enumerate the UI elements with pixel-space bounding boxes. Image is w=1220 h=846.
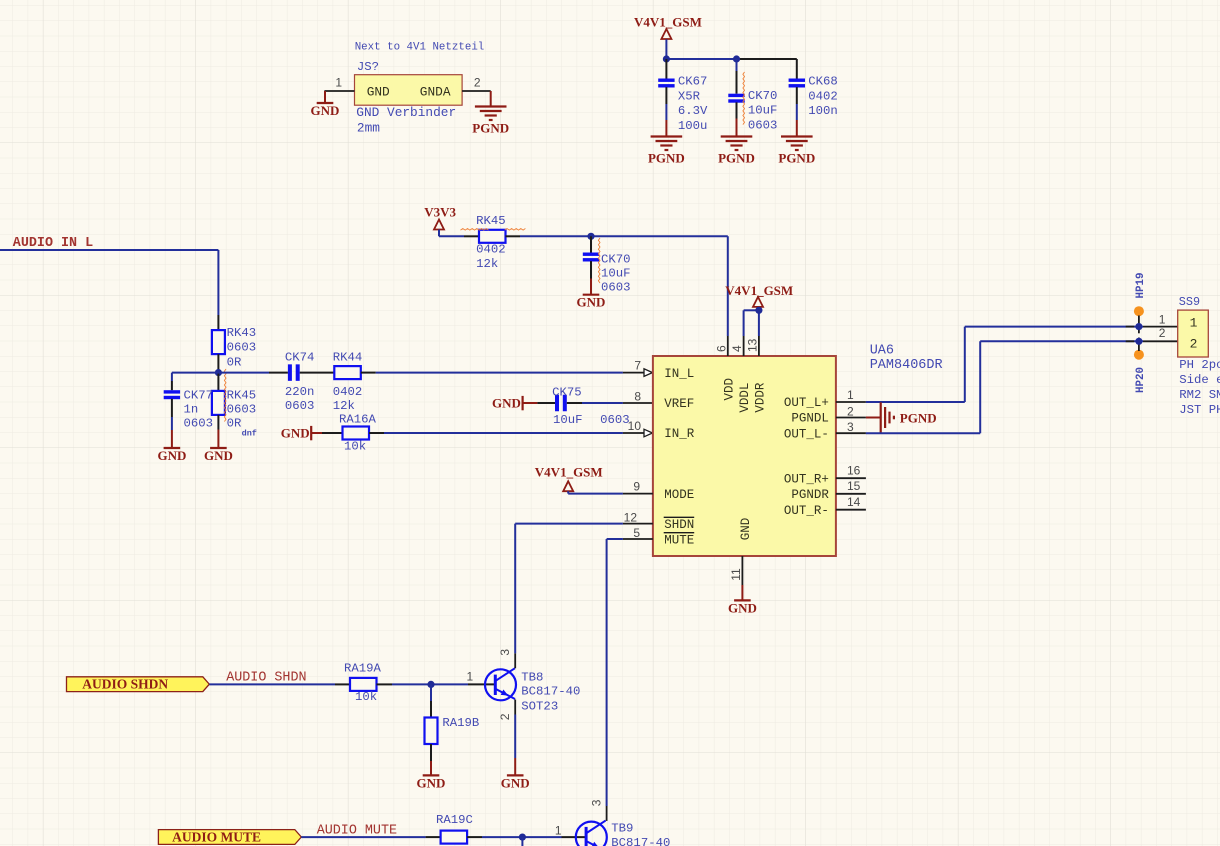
svg-text:0603: 0603: [600, 413, 630, 427]
power symbol V4V1_GSM mid: [753, 297, 763, 307]
connector JS? pin 1 line: [324, 90, 354, 92]
junction VDDR tee: [755, 307, 762, 314]
wire OUT_L+ net: [866, 401, 965, 403]
capacitor CK68 plates: [789, 79, 805, 88]
svg-text:GND: GND: [157, 448, 186, 463]
ground GND stem TB8: [514, 758, 516, 775]
svg-text:VDD: VDD: [722, 378, 736, 401]
ground GND below RA19B: [417, 775, 446, 790]
wire MUTE net: [607, 538, 623, 540]
svg-text:V4V1_GSM: V4V1_GSM: [725, 283, 793, 298]
DRC squiggles at RK45: [461, 229, 489, 231]
svg-text:RK43: RK43: [227, 326, 257, 340]
transistor TB8 collector pin: [514, 653, 516, 668]
svg-text:1: 1: [1159, 312, 1166, 326]
svg-text:IN_R: IN_R: [664, 427, 695, 441]
capacitor CK77 plates: [164, 390, 180, 399]
junction rail at CK70: [733, 55, 740, 62]
svg-text:1: 1: [555, 823, 562, 837]
wire CK67 to PGND: [665, 104, 667, 120]
pin 13 VDDR line: [758, 336, 760, 356]
svg-text:VDDL: VDDL: [738, 383, 752, 413]
DRC squiggle at RK45 dnf: [224, 369, 226, 422]
ground GND stem pin 11: [741, 585, 743, 600]
transistor TB9 BC817-40: [576, 821, 607, 846]
svg-text:TB9: TB9: [611, 822, 633, 836]
wire V3V3 to RK45: [439, 235, 464, 237]
capacitor CK68 top pin: [796, 59, 798, 79]
svg-text:2: 2: [847, 404, 854, 418]
wire AUDIO IN L vertical: [217, 250, 219, 315]
capacitor CK70 plates: [728, 94, 744, 103]
ground PGND below CK68: [778, 137, 815, 166]
pin 6 VDD line: [727, 336, 729, 356]
svg-text:0603: 0603: [748, 118, 778, 132]
connector JS? pin 2 line: [462, 90, 491, 92]
wire VDDL VDDR tee: [744, 309, 759, 311]
svg-text:IN_L: IN_L: [664, 367, 694, 381]
svg-text:PGND: PGND: [648, 151, 685, 166]
svg-text:RA19C: RA19C: [436, 813, 473, 827]
capacitor CK75 left pin: [537, 402, 555, 404]
svg-text:AUDIO IN L: AUDIO IN L: [13, 236, 93, 251]
connector SS9 body: [1178, 310, 1209, 357]
svg-text:1: 1: [467, 670, 474, 684]
svg-text:0R: 0R: [227, 355, 242, 369]
svg-text:AUDIO SHDN: AUDIO SHDN: [226, 671, 306, 686]
svg-text:CK70: CK70: [601, 252, 631, 266]
capacitor CK70 top pin: [736, 59, 738, 71]
svg-text:9: 9: [633, 480, 640, 494]
wire V4V1_GSM stem: [665, 39, 667, 59]
wire SHDN net: [515, 523, 623, 525]
svg-text:GND: GND: [417, 775, 446, 790]
capacitor CK77 top pin: [171, 381, 173, 390]
capacitor CK74 plates: [288, 364, 300, 381]
wire below TB9 base node: [521, 837, 523, 846]
resistor RA19A body: [350, 678, 377, 691]
wire CK68 to PGND: [796, 104, 798, 120]
svg-text:0603: 0603: [227, 402, 257, 416]
svg-text:0603: 0603: [285, 399, 315, 413]
resistor RA19C left pin: [426, 836, 441, 838]
svg-text:AUDIO SHDN: AUDIO SHDN: [82, 677, 168, 692]
ground GND at JS? pin 1: [311, 91, 340, 118]
svg-text:3: 3: [589, 799, 603, 806]
svg-text:GND: GND: [577, 295, 606, 310]
DRC squiggle at CK70 decoupling: [598, 238, 600, 283]
svg-text:2: 2: [474, 76, 481, 90]
ground GND rotated at CK75: [492, 395, 537, 410]
svg-text:0603: 0603: [601, 281, 631, 295]
svg-text:GND Verbinder: GND Verbinder: [356, 105, 456, 120]
svg-text:PGND: PGND: [900, 411, 937, 426]
junction rail at CK67: [663, 55, 670, 62]
pin 16 OUT_R+ line: [836, 477, 866, 479]
svg-text:RK44: RK44: [333, 351, 363, 365]
connector SS9 pin 1 line: [1143, 326, 1178, 328]
svg-text:CK68: CK68: [808, 75, 838, 89]
capacitor CK77 bottom pin: [171, 399, 173, 417]
capacitor CK74 right pin: [300, 372, 335, 374]
svg-text:GND: GND: [739, 518, 753, 541]
svg-text:V3V3: V3V3: [424, 205, 456, 220]
svg-text:2mm: 2mm: [357, 121, 380, 136]
transistor TB8 base pin: [468, 683, 495, 685]
svg-text:RA16A: RA16A: [339, 412, 377, 426]
power symbol V4V1_GSM top: [661, 29, 671, 39]
connector SS9 pin 2 line: [1143, 340, 1178, 342]
svg-text:VREF: VREF: [664, 397, 694, 411]
wire RA16A to IN_R: [384, 432, 623, 434]
svg-text:GND: GND: [204, 448, 233, 463]
testpoint HP19 pin: [1138, 316, 1140, 334]
resistor RK45 right pin: [506, 235, 521, 237]
svg-text:JS?: JS?: [357, 60, 379, 74]
pin 2 PGNDL line: [836, 417, 866, 419]
pin 14 OUT_R- line: [836, 509, 866, 511]
svg-text:7: 7: [634, 359, 641, 373]
connector JS? body: [355, 75, 463, 106]
svg-text:3: 3: [498, 649, 512, 656]
svg-text:10: 10: [628, 419, 642, 433]
wire RA19C to TB9 base: [482, 836, 562, 838]
svg-text:12k: 12k: [333, 399, 355, 413]
svg-text:dnf: dnf: [242, 429, 257, 439]
IC UA6 PAM8406DR body: [653, 356, 836, 556]
junction HP19 on OUT_L+: [1135, 323, 1142, 330]
junction base node TB8: [427, 681, 434, 688]
pin 12 SHDN line: [623, 523, 653, 525]
resistor RA19C right pin: [467, 836, 482, 838]
wire RA19A to TB8 base: [392, 683, 468, 685]
wire V4V1_GSM stem to junction: [757, 307, 759, 310]
svg-text:14: 14: [847, 495, 861, 509]
resistor RK45 left pin: [464, 235, 479, 237]
svg-text:0R: 0R: [227, 416, 242, 430]
svg-text:BC817-40: BC817-40: [521, 685, 580, 699]
svg-text:10k: 10k: [355, 690, 377, 704]
resistor RK45 dnf top pin: [217, 373, 219, 391]
svg-text:Side e: Side e: [1179, 373, 1220, 387]
wire rail CK70-CK68: [737, 58, 797, 60]
capacitor CK75 right pin: [567, 402, 582, 404]
capacitor CK70 decoupling top pin: [590, 236, 592, 252]
junction input node: [215, 369, 222, 376]
svg-text:10k: 10k: [344, 440, 366, 454]
svg-text:1n: 1n: [184, 402, 199, 416]
svg-text:SOT23: SOT23: [521, 700, 558, 714]
wire CK77 to GND: [171, 417, 173, 430]
svg-text:CK67: CK67: [678, 75, 708, 89]
capacitor CK67 top pin: [665, 59, 667, 79]
svg-text:0402: 0402: [333, 385, 363, 399]
svg-text:GND: GND: [367, 84, 390, 99]
resistor RK44 right pin: [361, 372, 376, 374]
pin 10 IN_R line: [623, 432, 653, 434]
wire CK75 to VREF: [582, 402, 623, 404]
transistor TB9 base pin: [562, 836, 587, 838]
svg-text:V4V1_GSM: V4V1_GSM: [535, 465, 603, 480]
svg-text:CK70: CK70: [748, 89, 778, 103]
svg-text:0402: 0402: [476, 242, 506, 256]
resistor RA19A right pin: [377, 683, 393, 685]
ground PGND stem at JS? pin 2: [490, 91, 492, 107]
svg-text:1: 1: [1190, 316, 1198, 331]
svg-text:GND: GND: [281, 425, 310, 440]
ground GND rotated at RA16A: [281, 425, 322, 440]
svg-text:220n: 220n: [285, 385, 315, 399]
svg-text:6.3V: 6.3V: [678, 104, 708, 118]
testpoint HP20 pin: [1138, 338, 1140, 352]
svg-text:100n: 100n: [808, 104, 838, 118]
svg-text:PH 2po: PH 2po: [1179, 358, 1220, 372]
svg-text:0603: 0603: [184, 416, 214, 430]
resistor RA19B bottom pin: [430, 744, 432, 761]
svg-text:CK74: CK74: [285, 351, 315, 365]
svg-text:PGNDR: PGNDR: [791, 488, 829, 502]
svg-text:HP19: HP19: [1135, 273, 1147, 299]
svg-text:1: 1: [847, 388, 854, 402]
svg-text:GND: GND: [311, 103, 340, 118]
svg-text:OUT_L+: OUT_L+: [784, 396, 829, 410]
ground GND stem CK77: [171, 430, 173, 448]
pin 15 PGNDR line: [836, 493, 866, 495]
svg-text:SHDN: SHDN: [664, 518, 694, 532]
ground GND below TB8: [501, 775, 530, 790]
pin 5 MUTE line: [623, 538, 653, 540]
svg-text:16: 16: [847, 464, 861, 478]
ground GND stem RA19B: [430, 761, 432, 775]
resistor RA16A left pin: [322, 432, 343, 434]
capacitor CK67 bottom pin: [665, 87, 667, 104]
svg-text:MODE: MODE: [664, 488, 694, 502]
svg-text:RA19B: RA19B: [442, 716, 479, 730]
svg-text:5: 5: [633, 526, 640, 540]
svg-text:GND: GND: [492, 395, 521, 410]
ground PGND at JS? pin 2: [472, 107, 509, 136]
testpoint HP20 pad: [1134, 350, 1144, 360]
svg-text:100u: 100u: [678, 119, 708, 133]
wire V4V1_GSM rail CK67-CK70: [666, 58, 736, 60]
svg-text:2: 2: [1190, 337, 1198, 352]
wire PGNDL to PGND symbol: [866, 417, 881, 419]
svg-text:PGND: PGND: [472, 121, 509, 136]
capacitor CK70 decoupling bottom pin: [590, 261, 592, 278]
svg-text:MUTE: MUTE: [664, 533, 694, 547]
resistor RK45 dnf body: [212, 391, 225, 415]
power symbol V4V1_GSM mode: [563, 481, 573, 491]
capacitor CK70 bottom pin: [736, 102, 738, 118]
svg-text:13: 13: [745, 338, 759, 352]
resistor RK43 top pin: [217, 315, 219, 330]
svg-text:RA19A: RA19A: [344, 662, 382, 676]
svg-text:8: 8: [634, 389, 641, 403]
svg-text:10uF: 10uF: [748, 104, 778, 118]
transistor TB9 collector pin: [606, 806, 608, 821]
ground GND below CK77: [157, 448, 186, 463]
wire RK45 to VDD: [520, 235, 728, 237]
svg-text:PAM8406DR: PAM8406DR: [870, 358, 943, 373]
svg-text:OUT_R-: OUT_R-: [784, 504, 829, 518]
svg-text:12k: 12k: [476, 257, 498, 271]
pin 8 VREF line: [623, 402, 653, 404]
junction HP20 on OUT_L-: [1135, 338, 1142, 345]
ground PGND below CK70: [718, 137, 755, 166]
ground GND below IC pin 11: [728, 600, 757, 615]
DRC marker squiggle at CK70: [743, 72, 745, 125]
svg-text:Next to 4V1 Netzteil: Next to 4V1 Netzteil: [355, 42, 485, 54]
svg-text:2: 2: [1159, 326, 1166, 340]
wire down to VDD pin: [727, 236, 729, 336]
resistor RK45 pullup body: [479, 230, 506, 243]
ground GND stem RK45: [217, 430, 219, 449]
ground PGND rotated at pin 2: [881, 402, 937, 432]
junction RK45 rail at CK70: [587, 233, 594, 240]
svg-text:GNDA: GNDA: [420, 84, 451, 99]
wire OUT_L- net: [866, 432, 980, 434]
svg-text:15: 15: [847, 479, 861, 493]
wire V4V1_GSM to MODE: [567, 491, 569, 493]
transistor TB8 BC817-40: [485, 668, 516, 700]
svg-text:GND: GND: [501, 775, 530, 790]
resistor RK44 body: [334, 366, 361, 379]
capacitor CK67 plates: [658, 79, 674, 88]
svg-text:4: 4: [730, 345, 744, 352]
svg-text:11: 11: [729, 568, 743, 581]
pin 9 MODE line: [623, 493, 653, 495]
svg-text:BC817-40: BC817-40: [611, 836, 670, 846]
wire node to CK74: [218, 372, 269, 374]
resistor RA16A body: [343, 427, 370, 440]
svg-text:SS9: SS9: [1179, 295, 1200, 309]
svg-text:1: 1: [335, 76, 342, 90]
ground PGND stem CK68: [796, 120, 798, 137]
ground GND below CK70 decoupling: [577, 295, 606, 310]
junction base node TB9: [519, 834, 526, 841]
svg-text:2: 2: [498, 713, 512, 720]
transistor TB8 emitter pin: [514, 700, 516, 715]
svg-text:RK45: RK45: [227, 388, 257, 402]
svg-text:0603: 0603: [227, 341, 257, 355]
resistor RA19A left pin: [335, 683, 350, 685]
ground PGND stem CK67: [665, 120, 667, 137]
resistor RA19C body: [441, 831, 468, 844]
ground GND stem CK70: [590, 279, 592, 295]
svg-text:UA6: UA6: [870, 344, 894, 359]
svg-text:PGND: PGND: [718, 151, 755, 166]
svg-text:JST PH: JST PH: [1179, 403, 1220, 417]
resistor RK43 body: [212, 330, 225, 354]
svg-text:10uF: 10uF: [601, 267, 631, 281]
wire RK44 to IN_L: [376, 372, 623, 374]
wire AUDIO IN L horizontal: [0, 249, 218, 251]
capacitor CK75 plates: [555, 395, 567, 412]
svg-text:10uF: 10uF: [553, 413, 583, 427]
pin 3 OUT_L- line: [836, 432, 866, 434]
svg-text:X5R: X5R: [678, 89, 701, 103]
resistor RA19B top pin: [430, 684, 432, 717]
wire AUDIO SHDN to RA19A: [209, 683, 335, 685]
wire AUDIO MUTE to RA19C: [301, 836, 425, 838]
pin 1 OUT_L+ line: [836, 401, 866, 403]
svg-text:PGNDL: PGNDL: [791, 412, 829, 426]
svg-text:OUT_L-: OUT_L-: [784, 427, 829, 441]
svg-text:CK77: CK77: [184, 388, 214, 402]
resistor RK45 dnf bottom pin: [217, 415, 219, 430]
svg-text:3: 3: [847, 420, 854, 434]
capacitor CK68 bottom pin: [796, 87, 798, 104]
pin 7 IN_L line: [623, 372, 653, 374]
svg-text:PGND: PGND: [778, 151, 815, 166]
svg-text:HP20: HP20: [1135, 367, 1147, 393]
svg-text:VDDR: VDDR: [753, 382, 767, 413]
svg-text:RK45: RK45: [476, 214, 506, 228]
wire TB8 emitter to GND: [514, 715, 516, 759]
ground GND below RK45 dnf: [204, 448, 233, 463]
ground PGND below CK67: [648, 137, 685, 166]
svg-text:AUDIO MUTE: AUDIO MUTE: [172, 829, 261, 844]
capacitor CK74 left pin: [269, 372, 288, 374]
wire node to CK77: [172, 372, 219, 374]
svg-text:V4V1_GSM: V4V1_GSM: [634, 15, 702, 30]
pin 11 GND line: [741, 556, 743, 585]
testpoint HP19 pad: [1134, 306, 1144, 316]
pin 4 VDDL line: [743, 336, 745, 356]
svg-text:GND: GND: [728, 600, 757, 615]
port AUDIO SHDN: [67, 677, 210, 692]
svg-text:RM2 SM: RM2 SM: [1179, 388, 1220, 402]
svg-text:CK75: CK75: [552, 385, 582, 399]
capacitor CK70 decoupling plates: [583, 253, 599, 262]
wire V3V3 stem: [438, 230, 440, 237]
svg-text:0402: 0402: [808, 89, 838, 103]
svg-text:OUT_R+: OUT_R+: [784, 472, 829, 486]
power symbol V3V3: [434, 220, 444, 230]
ground PGND stem CK70: [736, 119, 738, 137]
svg-text:12: 12: [624, 510, 638, 524]
resistor RA16A right pin: [369, 432, 384, 434]
svg-text:6: 6: [714, 345, 728, 352]
resistor RA19B body: [425, 718, 438, 745]
resistor RK43 bottom pin: [217, 354, 219, 373]
svg-text:TB8: TB8: [521, 671, 543, 685]
port AUDIO MUTE: [158, 830, 301, 845]
